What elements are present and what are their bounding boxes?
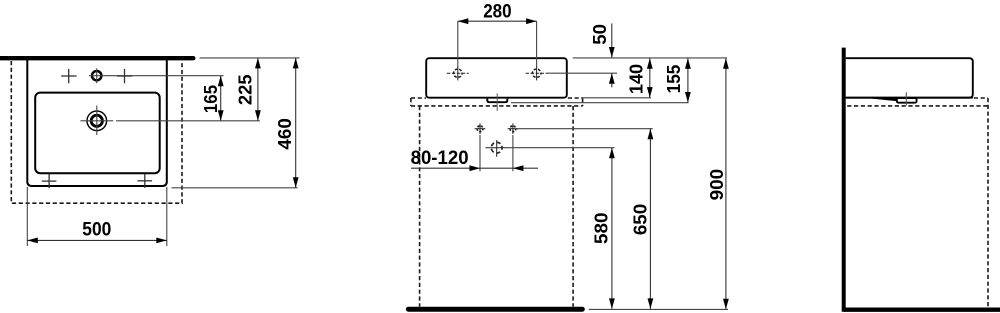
dimension 80-120 extension line left (479, 135, 481, 171)
mounting cross bottom-right (138, 174, 153, 188)
dimension 165 line (218, 76, 224, 121)
countertop dashed top (side view) (974, 97, 988, 99)
extension line drain level (116, 120, 260, 122)
supply connection right (508, 123, 519, 134)
svg-text:580: 580 (591, 213, 611, 245)
basin bottom edge (side view) (846, 97, 973, 99)
drain trap circle (486, 140, 509, 157)
floor extension line (front view) (589, 308, 728, 310)
svg-text:155: 155 (664, 65, 684, 94)
dimension 500 extension line right (166, 187, 168, 246)
dimension 50 line lower (609, 73, 615, 87)
extension line top wall level (200, 57, 300, 59)
dimension 50 line upper (609, 23, 615, 57)
countertop dashed outline (top view) (11, 61, 182, 203)
extension line basin bottom level (front) (581, 97, 651, 99)
svg-text:50: 50 (590, 24, 610, 45)
pedestal dashed left (front view) (419, 106, 421, 307)
dimension 650 line (648, 129, 654, 309)
svg-text:80-120: 80-120 (411, 148, 469, 169)
wall line (top view) (0, 56, 193, 60)
faucet hole (top view) (92, 71, 101, 80)
faucet hole left (front view) (447, 66, 469, 80)
svg-text:650: 650 (631, 204, 651, 235)
dimension 580 line (609, 148, 615, 309)
drain stub (side view) (897, 98, 917, 103)
countertop dashed right edge (side view) (987, 98, 989, 308)
countertop dashed right edge (front view) (582, 98, 584, 106)
countertop dashed bottom (side view) (847, 105, 988, 107)
basin outer rim (top view) (27, 59, 167, 186)
dimension 500 line (27, 238, 167, 244)
extension line faucet level (89, 75, 224, 77)
basin inner bowl (top view) (35, 93, 160, 174)
alt faucet position cross right (117, 69, 132, 83)
extension line basin top level (front) (573, 57, 727, 59)
dimension 280 extension line right (536, 21, 538, 69)
extension line stub bottom level (front) (511, 102, 689, 104)
underside slope (side view) (872, 97, 898, 101)
extension line supply level (516, 128, 653, 130)
svg-text:500: 500 (82, 219, 111, 240)
drain stub centerline (side view) (905, 92, 907, 105)
floor line (front view) (408, 307, 582, 312)
floor line (side view) (844, 308, 1000, 312)
dimension 155 line (685, 58, 691, 102)
drain centerline horizontal (80, 120, 113, 122)
mounting cross bottom-left (42, 174, 57, 188)
faucet hole centerline vertical (96, 68, 98, 83)
wall line (side view) (842, 48, 846, 312)
faucet hole right (front view) (526, 66, 548, 80)
drain inner ring (top view) (91, 115, 102, 126)
countertop dashed bottom (front view) (411, 105, 583, 107)
extension line basin front level (172, 187, 298, 189)
dimension 500 extension line left (26, 187, 28, 246)
countertop dashed top-left (front view) (411, 97, 426, 99)
dimension 280 line (458, 18, 537, 24)
svg-text:140: 140 (626, 64, 646, 94)
svg-text:900: 900 (707, 169, 727, 201)
drain stub centerline (front view) (496, 93, 498, 111)
dimension 225 line (255, 58, 261, 121)
dimension 80-120 extension line right (512, 135, 514, 171)
countertop dashed left edge (front view) (410, 98, 412, 106)
countertop dashed top-right (front view) (568, 97, 583, 99)
extension line hole level (front) (547, 72, 617, 74)
supply connection left (475, 123, 486, 134)
basin body (side view) (846, 58, 973, 97)
pedestal dashed right (front view) (572, 106, 574, 307)
extension line trap level (508, 147, 614, 149)
drain centerline vertical (96, 106, 98, 135)
svg-text:460: 460 (275, 118, 295, 149)
svg-text:225: 225 (235, 74, 255, 105)
dimension 900 line (723, 58, 729, 309)
dimension 280 extension line left (457, 21, 459, 69)
dimension 460 line (293, 58, 299, 188)
alt faucet position cross left (61, 69, 76, 83)
svg-text:165: 165 (201, 85, 221, 113)
drain stub (front view) (487, 99, 507, 103)
drain outer circle (top view) (87, 111, 107, 131)
basin body (front view) (426, 58, 567, 97)
svg-text:280: 280 (483, 1, 511, 22)
dimension 140 line (647, 58, 653, 97)
dimension 80-120 line (411, 165, 538, 171)
